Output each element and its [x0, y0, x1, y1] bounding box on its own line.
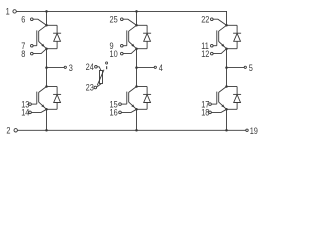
wire (leg 2 bus: rail to upper collector): [136, 11, 138, 25]
pin 19 terminal (DC-): [246, 129, 248, 131]
thermistor R-NTC: [97, 70, 104, 86]
svg-text:24: 24: [86, 62, 95, 72]
pin 22 label: [201, 15, 210, 25]
pin 17 label: [201, 100, 210, 110]
pin 14 label: [21, 108, 30, 118]
pin 8 label: [21, 49, 25, 59]
pin 23 label: [86, 83, 95, 93]
node (top rail junction): [135, 10, 138, 13]
pin 3 label: [69, 63, 73, 73]
pin 10 label: [110, 49, 119, 59]
node (emitter junction): [45, 47, 48, 50]
wire (leg 1 bus: upper emitter to output): [46, 49, 48, 87]
pin 18 terminal (aux emitter): [209, 109, 227, 113]
node (bottom rail junction): [225, 129, 228, 132]
pin 7 terminal (gate): [31, 44, 37, 47]
pin 25 terminal (aux collector): [121, 18, 137, 25]
pin 25 label: [110, 15, 119, 25]
svg-text:19: 19: [250, 126, 259, 136]
node (emitter junction): [135, 108, 138, 111]
svg-text:18: 18: [201, 108, 210, 118]
wire (leg 3 bus: upper emitter to output): [226, 49, 228, 87]
wire (phase output stub): [47, 67, 65, 69]
pin 15 terminal (gate): [119, 103, 127, 106]
pin 16 terminal (aux emitter): [119, 109, 137, 113]
pin 13 terminal (gate): [29, 103, 37, 106]
wire (DC- bottom rail): [17, 129, 245, 131]
pin 10 terminal (aux emitter): [121, 49, 137, 55]
transistor T3 (IGBT): [127, 25, 137, 48]
svg-text:6: 6: [21, 15, 25, 25]
pin 19 label: [250, 126, 259, 136]
node (collector junction): [135, 24, 138, 27]
node (collector junction): [225, 24, 228, 27]
pin 2 terminal (DC-): [14, 129, 17, 132]
node (emitter junction): [225, 108, 228, 111]
pin 1 terminal (DC+): [13, 10, 16, 13]
pin 11 terminal (gate): [211, 44, 217, 47]
svg-text:22: 22: [201, 15, 210, 25]
pin 24 label: [86, 62, 95, 72]
pin 9 terminal (gate): [121, 44, 127, 47]
pin 4 terminal (AC output): [154, 66, 156, 68]
pin 2 label: [6, 126, 10, 136]
svg-text:25: 25: [110, 15, 119, 25]
node (collector junction): [45, 24, 48, 27]
svg-text:2: 2: [6, 126, 10, 136]
wire (leg 3 bus: lower emitter to bottom rail): [226, 109, 228, 130]
diode D1 (anti-parallel): [47, 25, 62, 48]
wire (leg 1 bus: rail to upper collector): [46, 11, 48, 25]
pin 12 terminal (aux emitter): [211, 49, 227, 55]
pin 17 terminal (gate): [209, 103, 217, 106]
wire (phase output stub): [227, 67, 245, 69]
transistor T6 (IGBT): [217, 87, 227, 110]
transistor T5 (IGBT): [217, 25, 227, 48]
node (emitter junction): [225, 47, 228, 50]
pin 13 label: [21, 100, 30, 110]
pin 8 terminal (aux emitter): [31, 49, 47, 55]
svg-text:4: 4: [159, 63, 163, 73]
pin 1 label: [6, 7, 10, 17]
pin 9 label: [110, 41, 114, 51]
pin 12 label: [201, 49, 210, 59]
diode D4 (anti-parallel): [137, 87, 152, 110]
node (phase output junction): [225, 66, 228, 69]
pin 11 label: [201, 41, 209, 51]
diode D2 (anti-parallel): [47, 87, 62, 110]
pin 4 label: [159, 63, 163, 73]
node (top rail junction): [45, 10, 48, 13]
pin 5 label: [249, 63, 253, 73]
transistor T1 (IGBT): [37, 25, 47, 48]
pin 6 terminal (aux collector): [31, 18, 47, 25]
node (bottom rail junction): [45, 129, 48, 132]
pin 5 terminal (AC output): [244, 66, 246, 68]
svg-text:5: 5: [249, 63, 253, 73]
node (phase output junction): [135, 66, 138, 69]
wire (leg 2 bus: lower emitter to bottom rail): [136, 109, 138, 130]
diode D3 (anti-parallel): [137, 25, 152, 48]
wire (DC+ top rail): [16, 10, 227, 12]
svg-text:12: 12: [201, 49, 210, 59]
transistor T2 (IGBT): [37, 87, 47, 110]
node (phase output junction): [45, 66, 48, 69]
node (emitter junction): [135, 47, 138, 50]
diode D5 (anti-parallel): [227, 25, 242, 48]
svg-text:14: 14: [21, 108, 30, 118]
node (collector junction): [225, 85, 228, 88]
node (emitter junction): [45, 108, 48, 111]
pin 6 label: [21, 15, 25, 25]
wire (leg 1 bus: lower emitter to bottom rail): [46, 109, 48, 130]
wire (leg 2 bus: upper emitter to output): [136, 49, 138, 87]
pin 15 label: [110, 100, 119, 110]
temperature symbol (theta): [106, 62, 108, 69]
pin 14 terminal (aux emitter): [29, 109, 47, 113]
node (collector junction): [45, 85, 48, 88]
svg-text:8: 8: [21, 49, 25, 59]
pin 18 label: [201, 108, 210, 118]
node (bottom rail junction): [135, 129, 138, 132]
svg-text:1: 1: [6, 7, 10, 17]
pin 23 terminal (NTC): [94, 84, 101, 89]
svg-text:10: 10: [110, 49, 119, 59]
svg-text:23: 23: [86, 83, 95, 93]
svg-text:3: 3: [69, 63, 73, 73]
diode D6 (anti-parallel): [227, 87, 242, 110]
transistor T4 (IGBT): [127, 87, 137, 110]
pin 16 label: [110, 108, 119, 118]
node (collector junction): [135, 85, 138, 88]
pin 3 terminal (AC output): [64, 66, 66, 68]
pin 7 label: [21, 41, 25, 51]
wire (phase output stub): [137, 67, 155, 69]
pin 24 terminal (NTC): [95, 66, 102, 71]
pin 22 terminal (aux collector): [211, 18, 227, 25]
wire (leg 3 bus: rail to upper collector): [226, 11, 228, 25]
svg-text:16: 16: [110, 108, 119, 118]
